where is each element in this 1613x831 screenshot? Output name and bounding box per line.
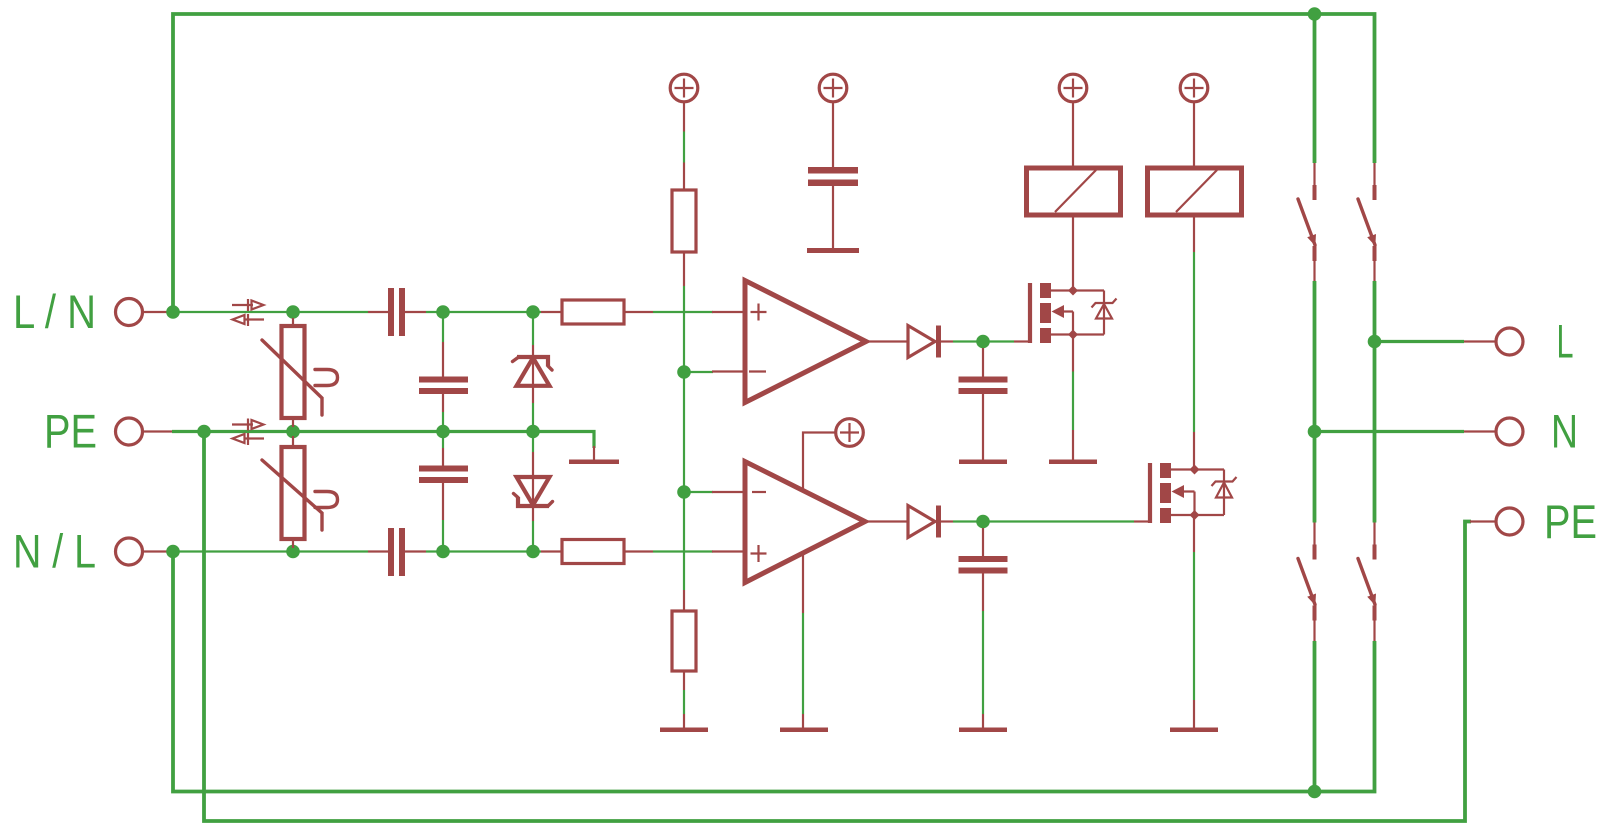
pin terminal PE: [144, 430, 173, 432]
svg-text:PE: PE: [1544, 495, 1597, 548]
switch S2 upper right: [1358, 163, 1377, 281]
wire N output: [1315, 430, 1465, 433]
wire L output: [1375, 340, 1465, 343]
junction PE at zener: [526, 425, 540, 439]
terminal input PE: [116, 418, 143, 445]
junction N/L at cap stack: [436, 545, 450, 559]
junction L output: [1368, 335, 1382, 349]
earth pin PE: [593, 446, 595, 460]
wire Q1 source to ground: [1072, 335, 1074, 460]
resistor R1: [541, 300, 653, 324]
zener D5: [513, 312, 553, 432]
op-amp U2: [712, 433, 908, 614]
junction L/N at zener: [526, 305, 540, 319]
junction L/N at feed: [166, 305, 180, 319]
wire U1 inverting input: [684, 371, 713, 373]
junction D2 output: [976, 515, 990, 529]
junction N/L at zener: [526, 545, 540, 559]
wire switch columns middle: [1315, 281, 1375, 523]
ground GND6: [1049, 460, 1097, 465]
capacitor C5 series N/L: [368, 528, 426, 576]
supply +V decoupling: [819, 74, 847, 102]
junction L/N at varistor: [286, 305, 300, 319]
junction N output: [1308, 425, 1322, 439]
wire D1 output to gate Q1: [953, 340, 1014, 342]
junction L/N at cap stack: [436, 305, 450, 319]
wire PE feed bottom bus: [204, 432, 1471, 822]
earth bar PE: [569, 460, 619, 465]
wire net L/N: [172, 311, 713, 313]
junction N/L at varistor: [286, 545, 300, 559]
capacitor C2: [959, 528, 1008, 728]
transistor Q2: [1134, 463, 1237, 523]
junction bottom bus: [1308, 785, 1322, 799]
terminal output PE: [1496, 508, 1523, 535]
junction PE at varistor: [286, 425, 300, 439]
svg-text:N / L: N / L: [13, 525, 96, 578]
relay K1 coil: [1027, 103, 1121, 291]
pin terminal N: [1464, 430, 1495, 432]
junction PE at cap stack: [436, 425, 450, 439]
ground GND7: [1170, 728, 1218, 733]
supply +V R3: [670, 74, 698, 102]
terminal input L/N: [116, 299, 143, 326]
capacitor C6 L/N to PE: [419, 312, 468, 432]
terminal output N: [1496, 418, 1523, 445]
pin terminal L/N: [144, 311, 173, 313]
resistor R4: [672, 590, 696, 728]
wire bottom bus N/L: [173, 552, 1375, 792]
capacitor C1: [959, 348, 1008, 460]
supply +V U2: [836, 419, 864, 447]
ground GND1: [660, 728, 708, 733]
ground GND5: [959, 728, 1007, 733]
supply +V K1: [1059, 74, 1087, 102]
wire Q2 source to ground: [1193, 515, 1195, 728]
resistor R3: [672, 102, 696, 287]
ground GND2: [959, 460, 1007, 465]
pin terminal N/L: [144, 550, 173, 552]
wire U2 ground pin: [802, 613, 804, 714]
supply +V K2: [1180, 74, 1208, 102]
junction PE at feed: [197, 425, 211, 439]
wire K2 to Q2 drain: [1193, 252, 1195, 432]
capacitor C4 series L/N: [368, 288, 426, 336]
diode D2: [908, 506, 953, 538]
wire D2 output to gate Q2: [953, 520, 1134, 522]
wire switch column left from top bus: [1313, 14, 1317, 163]
svg-text:L: L: [1557, 315, 1574, 368]
wire switch column left lower to bottom bus: [1313, 641, 1317, 792]
ground GND4: [807, 248, 859, 253]
wire U2 inverting input: [684, 491, 713, 493]
wire top bus: [173, 14, 1375, 313]
op-amp U1: [712, 281, 908, 403]
junction rail at op-amp U2: [677, 485, 691, 499]
relay K2 coil: [1148, 103, 1242, 252]
zener D6: [514, 432, 553, 552]
svg-text:L / N: L / N: [13, 285, 96, 338]
junction N/L at feed: [166, 545, 180, 559]
wire net N/L: [172, 550, 713, 552]
junction D1 output: [976, 335, 990, 349]
varistor R6: [262, 436, 338, 548]
capacitor C7 PE to N/L: [419, 432, 468, 552]
pin U2 ground: [802, 714, 804, 728]
switch S4 lower right: [1358, 523, 1377, 642]
varistor R5: [262, 318, 338, 427]
terminal output L: [1496, 328, 1523, 355]
junction rail at op-amp U1: [677, 365, 691, 379]
capacitor C3 decoupling: [808, 102, 858, 249]
transistor Q1: [1014, 283, 1117, 343]
terminal input N/L: [116, 538, 143, 565]
switch S1 upper left: [1298, 163, 1317, 281]
wire divider rail: [683, 286, 685, 590]
wire net PE: [172, 432, 594, 449]
svg-text:PE: PE: [44, 405, 97, 458]
resistor R2: [541, 540, 653, 564]
diode D1: [908, 326, 953, 358]
svg-text:N: N: [1551, 405, 1578, 458]
pin terminal L: [1464, 340, 1495, 342]
switch S3 lower left: [1298, 523, 1317, 642]
surge arrows PE: [232, 419, 264, 446]
pin terminal PE output: [1470, 520, 1495, 522]
surge arrows L/N: [232, 299, 264, 326]
junction top bus: [1308, 7, 1322, 21]
pin Q2 drain from relay: [1193, 432, 1195, 470]
ground GND3: [780, 728, 828, 733]
